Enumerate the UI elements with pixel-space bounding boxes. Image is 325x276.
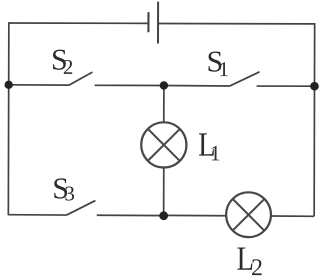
switch S3 blade (open): [67, 200, 96, 215]
label S3: [52, 172, 75, 205]
wire: bottom side, corner to S3 hinge: [8, 214, 66, 216]
wire: top side, left of battery: [8, 22, 148, 24]
node: centre junction dot: [160, 81, 168, 89]
wire: lamp L1 down to bottom junction: [163, 168, 165, 216]
lamp L2 circle: [226, 192, 271, 237]
wire: centre junction down to lamp L1: [163, 86, 165, 123]
svg-text:1: 1: [210, 140, 221, 165]
switch S2 blade (open): [69, 72, 93, 85]
wire: S1 fixed contact to right junction: [257, 85, 315, 87]
svg-text:2: 2: [63, 55, 74, 79]
svg-text:2: 2: [251, 255, 263, 276]
wire: S3 fixed contact to bottom junction: [97, 214, 164, 216]
wire: bottom junction to lamp L2: [164, 214, 227, 216]
node: middle-right junction dot: [310, 82, 319, 91]
switch S1 blade (open): [230, 72, 260, 86]
wire: centre junction to S1 hinge: [164, 85, 230, 87]
svg-text:1: 1: [219, 57, 230, 81]
label L2: [236, 239, 263, 276]
node: middle-left junction dot: [4, 81, 12, 89]
wire: right vertical side: [313, 24, 316, 216]
wire: left vertical side: [7, 23, 10, 215]
lamp L1 circle: [141, 122, 186, 167]
wire: S2 fixed contact to centre junction: [95, 84, 164, 86]
label S1: [207, 45, 230, 81]
svg-text:3: 3: [64, 181, 75, 205]
label S2: [51, 44, 73, 79]
lamp L1 cross: [148, 129, 180, 161]
wire: lamp L2 to bottom-right corner: [271, 215, 314, 217]
battery plate short (negative): [147, 12, 149, 32]
wire: top side, right of battery: [158, 22, 315, 24]
node: bottom junction dot: [159, 211, 168, 220]
lamp L2 cross: [233, 199, 265, 231]
label L1: [198, 125, 221, 165]
wire: middle rail, left junction to S2 hinge: [9, 84, 69, 86]
battery plate long (positive): [157, 2, 159, 44]
